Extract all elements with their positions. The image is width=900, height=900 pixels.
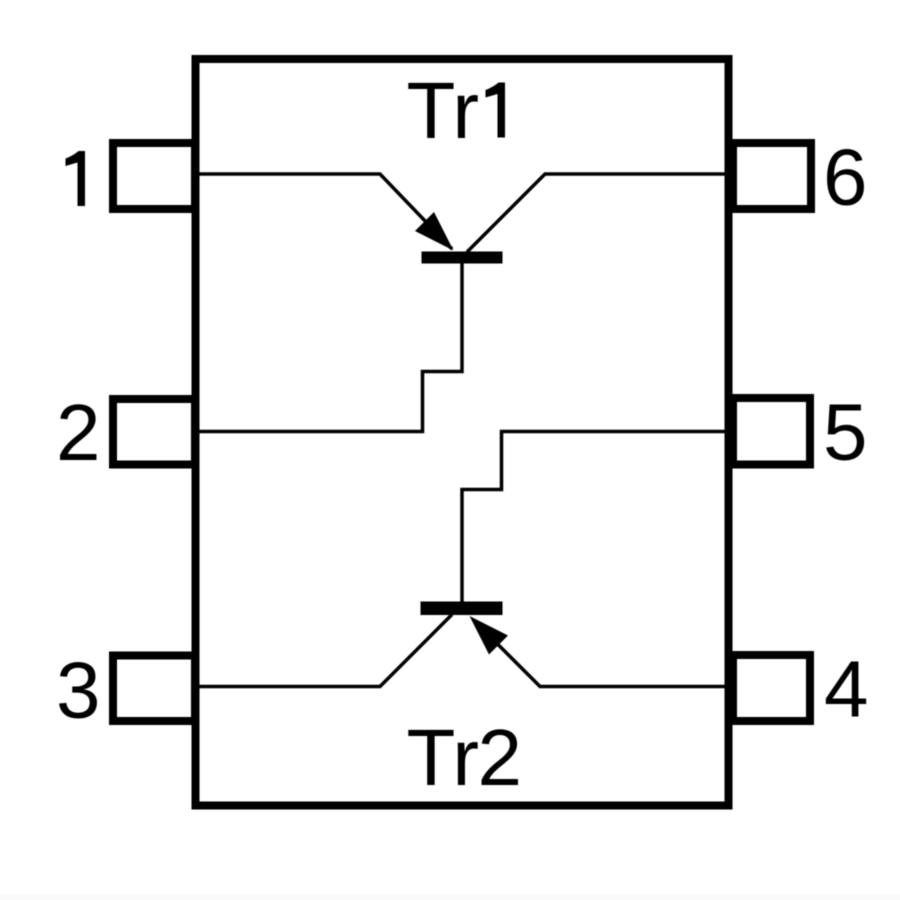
transistor Tr1 collector wire to pin 6	[467, 174, 728, 252]
pin 2 pad	[113, 399, 195, 465]
transistor Tr1 base wire to pin 2	[196, 257, 462, 432]
package outline	[196, 59, 729, 806]
svg-text:2: 2	[56, 388, 101, 477]
pin 6 pad	[733, 143, 811, 209]
transistor Tr2 base wire to pin 5	[462, 432, 728, 609]
pin 4 pad	[733, 655, 810, 721]
bottom edge shading artifact	[0, 895, 900, 900]
svg-text:Tr: Tr	[407, 713, 480, 802]
pin 5 pad	[733, 398, 810, 465]
svg-text:2: 2	[478, 713, 523, 802]
pin 3 pad	[113, 656, 195, 722]
transistor Tr2 collector wire to pin 3	[196, 615, 452, 687]
pin 1 label	[66, 151, 86, 206]
transistor Tr2 emitter arrow	[470, 616, 509, 655]
transistor Tr1 emitter arrow	[415, 212, 454, 251]
transistor Tr1 emitter wire from pin 1	[196, 174, 452, 249]
svg-text:3: 3	[56, 646, 101, 735]
svg-text:5: 5	[823, 388, 868, 477]
pin 1 pad	[113, 143, 195, 209]
svg-text:Tr: Tr	[407, 66, 480, 155]
svg-text:6: 6	[823, 133, 868, 222]
transistor Tr2 emitter wire from pin 4	[474, 621, 728, 687]
transistor Tr1 base bar	[422, 252, 503, 264]
svg-text:4: 4	[824, 645, 869, 734]
transistor Tr2 base bar	[421, 602, 503, 616]
